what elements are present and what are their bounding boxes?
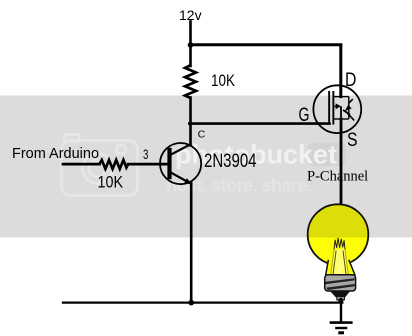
lamp neck left edge xyxy=(326,260,329,276)
lamp globe xyxy=(308,204,369,265)
mosfet gate bar xyxy=(328,91,330,125)
wire resistor to base xyxy=(128,163,167,166)
svg-text:G: G xyxy=(299,105,310,126)
lamp filament side lines xyxy=(331,250,334,275)
mosfet inner box top xyxy=(333,96,349,98)
lamp filament zigzag xyxy=(334,238,345,250)
wire 12v stem xyxy=(189,22,192,45)
lamp filament glow xyxy=(331,250,348,275)
svg-text:3: 3 xyxy=(143,147,148,162)
lamp base cone xyxy=(330,291,351,298)
svg-text:P-Channel: P-Channel xyxy=(307,169,368,185)
lamp neck fill xyxy=(326,258,355,276)
body diode bottom lead xyxy=(347,112,354,120)
svg-text:host. store. share.: host. store. share. xyxy=(166,176,312,196)
resistor R1 10K vertical xyxy=(185,65,196,98)
mosfet substrate arrowhead xyxy=(336,103,341,109)
resistor R2 10K horizontal xyxy=(99,160,128,169)
body diode triangle xyxy=(345,105,352,112)
wire bulb to ground xyxy=(340,299,342,322)
wire top rail xyxy=(191,43,341,46)
wire node C to gate xyxy=(189,122,329,125)
mosfet inner box bottom xyxy=(333,118,349,120)
mosfet mid vertical xyxy=(340,106,342,119)
junction dot bottom xyxy=(188,300,194,306)
transistor Q1 2N3904 circle xyxy=(160,143,201,184)
emitter arrowhead xyxy=(184,178,192,184)
lamp base nub xyxy=(337,297,345,300)
transistor emitter lead xyxy=(171,172,188,181)
wire 12v rail to resistor xyxy=(189,45,192,67)
watermark logo end box xyxy=(308,143,346,167)
lamp neck right edge xyxy=(349,260,355,276)
watermark camera icon xyxy=(62,135,138,196)
wire arduino input xyxy=(63,163,100,166)
svg-text:From Arduino: From Arduino xyxy=(12,146,99,162)
svg-text:2N3904: 2N3904 xyxy=(204,151,257,172)
transistor base bar xyxy=(167,148,171,179)
wire ground rail bottom xyxy=(63,301,342,303)
wire emitter down xyxy=(190,183,193,303)
transistor collector lead xyxy=(171,144,191,155)
lamp base screw threads xyxy=(326,278,355,284)
svg-text:10K: 10K xyxy=(211,72,235,90)
watermark band xyxy=(0,96,412,238)
ground symbol xyxy=(330,321,353,324)
wire resistor to collector xyxy=(189,98,192,146)
node junction dot top xyxy=(188,42,194,48)
body diode top lead xyxy=(349,99,353,104)
body diode bar xyxy=(343,110,350,115)
wire source down to bulb xyxy=(340,119,343,205)
mosfet inner box right xyxy=(348,97,350,119)
lamp tip xyxy=(338,298,344,302)
mosfet channel bar xyxy=(332,91,334,125)
mosfet substrate arrow line xyxy=(334,105,337,107)
lamp base screw xyxy=(325,275,356,291)
svg-text:C: C xyxy=(198,129,206,141)
svg-text:S: S xyxy=(347,130,358,151)
wire rail down to mosfet drain xyxy=(339,45,342,97)
svg-text:10K: 10K xyxy=(98,173,124,191)
mosfet U1 body circle xyxy=(313,85,361,133)
